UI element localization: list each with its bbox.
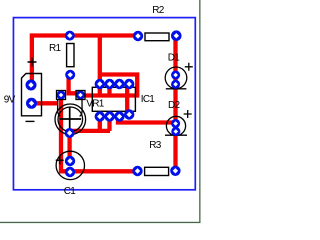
- resistor R1 bottom pad: [65, 70, 75, 80]
- svg-text:IC1: IC1: [141, 94, 156, 105]
- wire IC1 pin2 top stub: [107, 84, 111, 96]
- LED D2 lower pad: [171, 127, 180, 136]
- resistor R1 body: [67, 44, 74, 67]
- LED D1 lower pad: [171, 80, 180, 89]
- node pad R1 top on rail: [65, 31, 75, 41]
- panel edge bottom (dark green): [0, 222, 201, 223]
- wire junction on top rail down to IC1 pin1 top: [98, 36, 102, 96]
- wire VR1 bottom pad to C1 top pad: [67, 133, 71, 161]
- IC1 pad pin4 top: [124, 79, 134, 89]
- resistor R3 right pad: [170, 166, 180, 176]
- wire battery plus pad up and top rail to R2 left pad: [32, 36, 138, 86]
- wire R1 bottom pad to VR1 right pad: [69, 76, 81, 93]
- svg-text:R1: R1: [49, 43, 61, 54]
- svg-text:R3: R3: [149, 140, 161, 151]
- svg-text:D1: D1: [168, 52, 180, 63]
- node pad R2 right: [171, 30, 182, 41]
- trimpot VR1 bottom pad: [65, 128, 75, 138]
- svg-text:C1: C1: [64, 186, 76, 197]
- battery BT1 outline 9V: [22, 58, 42, 122]
- wire branch over IC1 right then down: [100, 75, 137, 96]
- wire battery minus rail: [32, 101, 59, 105]
- trimpot VR1 left pad: [56, 90, 65, 99]
- node pad R2 left: [133, 31, 143, 41]
- wire under IC1 from VR1 right pad to riser: [81, 93, 139, 97]
- wire right column R2 right pad through D1 D2 to R3 right pad: [173, 36, 177, 171]
- IC1 pad pin3 bottom: [114, 111, 124, 121]
- resistor R2 body: [145, 33, 169, 41]
- resistor R3 left pad: [132, 166, 142, 176]
- svg-text:9V: 9V: [4, 94, 16, 105]
- wire IC1 pin4 top down to pin4 bottom: [125, 84, 129, 113]
- wire IC1 pin1 bottom stub: [98, 117, 102, 131]
- wire VR1 bottom pad to IC1 bottom stubs: [70, 129, 110, 133]
- IC1 pad pin1 bottom: [95, 111, 105, 121]
- wire VR1 left pad down bottom corner and bottom rail to R3 left pad: [61, 96, 138, 171]
- capacitor C1 outline: [56, 151, 85, 179]
- LED D1 upper pad: [171, 70, 180, 79]
- IC1 outline: [92, 87, 135, 111]
- IC1 pad pin2 bottom: [104, 111, 114, 121]
- trimpot VR1 right pad: [76, 90, 85, 99]
- svg-text:D2: D2: [168, 100, 180, 111]
- battery pad minus: [26, 98, 37, 109]
- svg-text:VR1: VR1: [86, 98, 104, 109]
- wire IC1 pin2 bottom stub: [107, 117, 111, 131]
- board outline (blue border): [13, 18, 195, 190]
- LED D2 upper pad: [171, 119, 180, 128]
- IC1 pad pin2 top: [104, 79, 114, 89]
- LED D2 outline: [165, 110, 192, 136]
- capacitor C1 top pad: [65, 156, 75, 166]
- resistor R3 body: [145, 167, 169, 175]
- IC1 pad pin1 top: [95, 79, 105, 89]
- svg-text:R2: R2: [152, 5, 164, 16]
- capacitor C1 bottom pad: [65, 167, 75, 177]
- panel edge right (dark green): [199, 0, 200, 223]
- trimpot VR1 outline: [55, 91, 86, 135]
- wire IC1 pin3 bottom to D2 upper pad: [118, 117, 175, 123]
- IC1 pad pin4 bottom: [124, 109, 134, 119]
- battery pad plus: [26, 80, 37, 91]
- IC1 pad pin3 top: [114, 79, 124, 89]
- LED D1 outline: [165, 63, 193, 89]
